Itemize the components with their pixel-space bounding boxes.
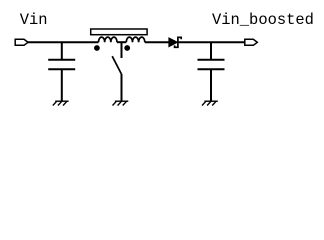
wire switch to ground xyxy=(121,74,123,101)
inductor L1 core xyxy=(91,29,147,35)
wire inductor to diode xyxy=(145,41,169,43)
wire diode to output xyxy=(179,41,245,43)
diode D1 anode triangle xyxy=(169,38,178,47)
ground left xyxy=(53,101,69,105)
diode D1 Schottky cathode bar xyxy=(175,37,182,47)
wire input to inductor xyxy=(28,41,99,43)
input port Vin xyxy=(15,39,28,45)
ground right xyxy=(202,101,218,105)
phase dot secondary xyxy=(124,45,130,51)
wire capacitor C1 bottom stub xyxy=(61,69,63,101)
net label Vin xyxy=(20,11,48,29)
switch SW1 blade xyxy=(112,56,121,74)
output port Vin_boosted xyxy=(245,39,257,45)
node Vin label xyxy=(0,0,1,1)
wire capacitor C2 bottom stub xyxy=(210,69,212,101)
inductor L1 secondary winding xyxy=(126,37,145,42)
net label Vin_boosted xyxy=(212,11,314,29)
wire between windings xyxy=(117,41,126,43)
wire capacitor C1 top stub xyxy=(61,42,63,60)
wire tap to switch xyxy=(121,42,123,58)
inductor L1 primary winding xyxy=(99,37,118,42)
wire capacitor C2 top stub xyxy=(210,42,212,60)
capacitor C2 xyxy=(198,60,225,70)
capacitor C1 xyxy=(48,60,75,70)
phase dot primary xyxy=(94,45,100,51)
ground middle xyxy=(113,101,129,105)
